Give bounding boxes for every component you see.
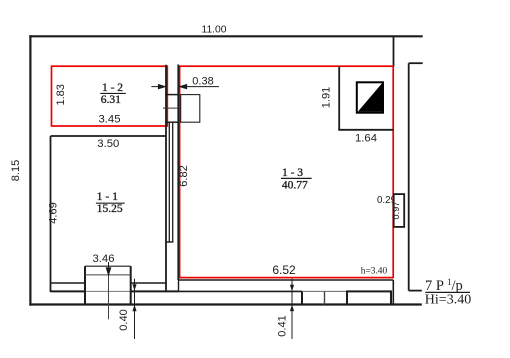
svg-text:1.83: 1.83 bbox=[55, 84, 67, 105]
window sill top line bbox=[302, 290, 347, 292]
svg-text:6.52: 6.52 bbox=[272, 263, 296, 277]
flue bottom cap bbox=[165, 241, 173, 243]
svg-text:1.91: 1.91 bbox=[321, 87, 333, 108]
entrance bay center line bbox=[108, 275, 110, 320]
svg-text:1 - 1: 1 - 1 bbox=[97, 191, 118, 203]
wall left outer bbox=[29, 35, 31, 305]
svg-text:6.82: 6.82 bbox=[178, 165, 190, 186]
room 1-3 red outline bbox=[180, 66, 394, 277]
svg-text:0.38: 0.38 bbox=[192, 76, 213, 88]
wall bottom outer bbox=[29, 303, 422, 305]
svg-text:3.45: 3.45 bbox=[99, 114, 121, 126]
svg-text:Hi=3.40: Hi=3.40 bbox=[425, 293, 471, 308]
svg-text:6.31: 6.31 bbox=[101, 94, 121, 106]
entrance bay top bbox=[85, 265, 131, 267]
svg-text:4.69: 4.69 bbox=[48, 202, 60, 223]
shaft symbol filled triangle bbox=[358, 83, 382, 111]
dimension 0.40 line bbox=[134, 279, 136, 339]
svg-text:3.50: 3.50 bbox=[97, 138, 119, 150]
svg-text:15.25: 15.25 bbox=[97, 203, 123, 215]
bottom wall line across bay thin bbox=[85, 290, 131, 292]
wall interior left line bbox=[165, 65, 167, 292]
right wall inner foot bbox=[392, 280, 394, 305]
bottom band inner line room 1-3 bbox=[179, 279, 394, 281]
svg-text:8.15: 8.15 bbox=[10, 160, 22, 181]
svg-text:0.40: 0.40 bbox=[118, 309, 130, 330]
entrance bay left side bbox=[84, 266, 86, 304]
wall right outer bbox=[408, 63, 410, 290]
svg-text:1.64: 1.64 bbox=[355, 133, 377, 145]
room 1-2 red outline bbox=[52, 66, 168, 126]
room 1-1 bottom inner line right bbox=[131, 282, 166, 284]
svg-text:7 P 1/p: 7 P 1/p bbox=[425, 277, 463, 294]
room 1-1 fraction line bbox=[96, 202, 125, 204]
svg-text:1 - 3: 1 - 3 bbox=[282, 167, 303, 179]
room 1-1 outline top bbox=[51, 135, 167, 137]
bottom band mid line to window bbox=[179, 290, 303, 292]
door opening top line bbox=[165, 94, 179, 96]
wall right upper segment bbox=[393, 36, 395, 67]
dimension 0.41 arrowheads bbox=[290, 285, 294, 311]
svg-text:40.77: 40.77 bbox=[282, 180, 308, 192]
room 1-1 outline left bbox=[50, 136, 52, 292]
svg-text:1 - 2: 1 - 2 bbox=[102, 82, 123, 94]
wall top (also 11.00 dimension line) bbox=[29, 35, 422, 37]
niche left wall bbox=[338, 66, 340, 130]
niche bottom wall bbox=[338, 129, 393, 131]
dimension 3.46 arrow bbox=[106, 262, 110, 275]
window mid tick bbox=[324, 291, 326, 304]
dimension 0.38 line with left arrow bbox=[180, 85, 219, 89]
bottom wall line right thick bbox=[131, 290, 179, 292]
svg-text:11.00: 11.00 bbox=[201, 25, 226, 36]
wall right outer top stub bbox=[409, 62, 423, 64]
bottom wall line left thick bbox=[51, 290, 86, 292]
floor label fraction line bbox=[425, 291, 470, 293]
room 1-3 fraction line bbox=[281, 177, 312, 179]
dimension 0.38 opposing arrow bbox=[151, 85, 165, 89]
dimension 0.40 arrowheads bbox=[132, 284, 136, 311]
flue line a bbox=[168, 123, 170, 242]
svg-text:0.41: 0.41 bbox=[276, 315, 288, 336]
flue line b bbox=[172, 123, 174, 242]
duct box 0.97 bbox=[394, 194, 405, 227]
svg-text:0.97: 0.97 bbox=[391, 202, 401, 220]
svg-text:3.46: 3.46 bbox=[93, 253, 115, 265]
window step vertical bbox=[301, 291, 303, 304]
wall right outer bottom stub bbox=[409, 290, 422, 292]
room 1-1 bottom inner line left bbox=[51, 282, 86, 284]
dimension 0.41 line bbox=[291, 279, 293, 339]
bottom band left connector bbox=[178, 280, 180, 291]
door leaf rectangle bbox=[181, 95, 200, 123]
wall interior right line bbox=[177, 65, 179, 281]
door mid line bbox=[163, 107, 181, 109]
wall pier rect right of window bbox=[347, 291, 391, 304]
door opening bottom line bbox=[165, 121, 179, 123]
room 1-2 fraction line bbox=[100, 92, 126, 94]
svg-text:h=3.40: h=3.40 bbox=[361, 267, 388, 277]
entrance bay inner line bbox=[85, 274, 131, 276]
entrance bay right side bbox=[130, 266, 132, 304]
shaft symbol square bbox=[357, 82, 383, 112]
